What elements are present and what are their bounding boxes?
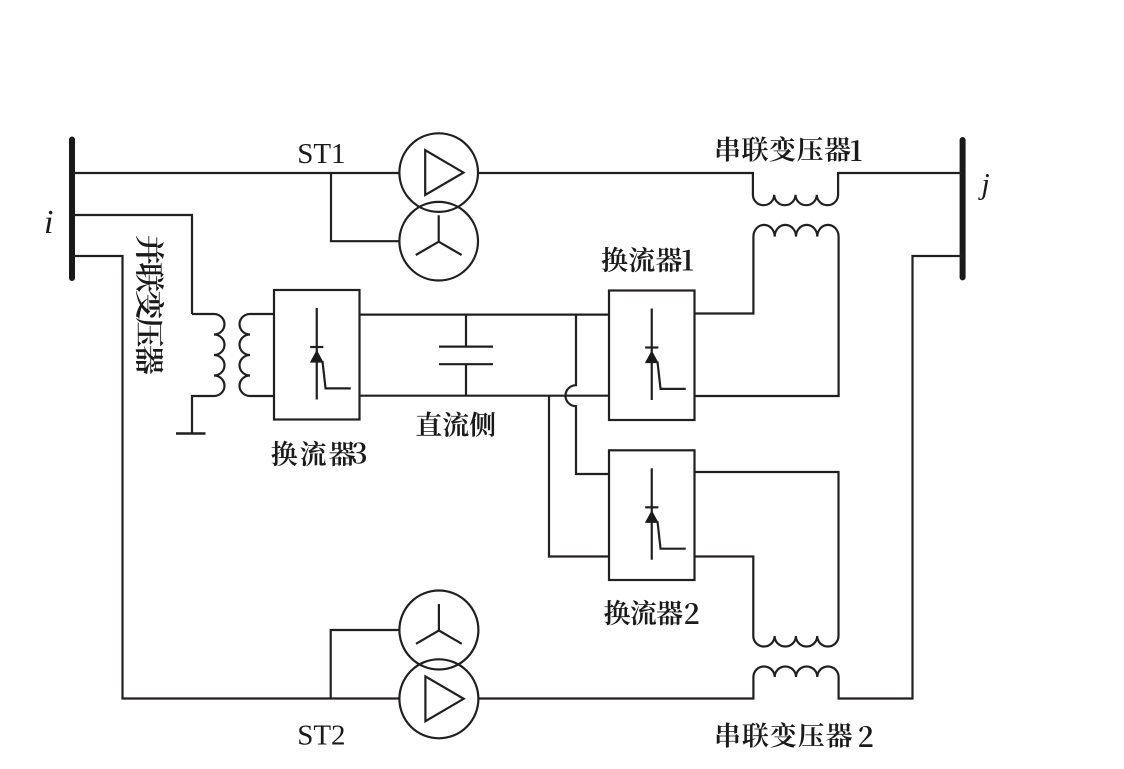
- wire: DC top rail to converter 2 (with hop over bottom rail): [566, 315, 610, 474]
- label: shunt transformer (binglian bianyaqi), rotated 90deg: [136, 236, 164, 374]
- transformer ST2 wye-winding circle: [399, 591, 478, 670]
- converter 1 IGBT valve symbol: [651, 309, 653, 401]
- ST1 delta symbol (right-pointing triangle): [425, 150, 463, 195]
- ST2 delta symbol (right-pointing triangle): [425, 676, 463, 721]
- wire: ST2 wye circle tap down to bottom line: [331, 630, 400, 699]
- converter 2 IGBT valve symbol: [651, 468, 653, 560]
- wire: bus i to ST1 delta circle (top line): [73, 172, 399, 174]
- label: series transformer 1 (chuanlian bianyaqi 1): [717, 136, 851, 161]
- shunt transformer secondary winding (right coil): [240, 314, 275, 396]
- wire: ST2 through series transformer 2 primary, up right side to bus j: [478, 256, 962, 699]
- ST1 wye symbol: [416, 215, 462, 255]
- label: DC side (zhiliuce): [416, 411, 495, 436]
- DC-link capacitor: [439, 315, 493, 396]
- svg-text:i: i: [44, 204, 53, 241]
- transformer ST2 delta-winding circle: [399, 659, 478, 738]
- label: converter 2 (huanliuqi 2): [604, 600, 682, 626]
- wire: bus i to shunt transformer primary: [73, 215, 192, 314]
- ground symbol: [176, 432, 206, 434]
- label: converter 1 (huanliuqi 1): [602, 247, 682, 273]
- wire: DC bottom rail to converter 2 lower terminal: [549, 396, 609, 557]
- label: series transformer 2 (chuanlian bianyaqi 2): [717, 722, 852, 747]
- converter 3 box (huanliuqi 3): [274, 290, 360, 420]
- series transformer 2 secondary winding with leads to converter 2: [695, 472, 839, 647]
- wire: bus i down the left side to ST2: [73, 256, 399, 699]
- label: converter 3 (huanliuqi 3): [271, 441, 355, 467]
- wire: DC bus top rail (converter 3 to converter 1): [360, 314, 610, 316]
- bus j (node j): [960, 140, 966, 277]
- converter 3 IGBT valve symbol: [316, 308, 318, 400]
- wire: DC bus bottom rail (converter 3 to converter 1): [360, 395, 610, 397]
- shunt transformer primary winding (left coil): [192, 314, 225, 434]
- svg-text:ST2: ST2: [297, 720, 345, 752]
- wire: ST1 to series transformer 1 primary, then to bus j: [478, 173, 962, 205]
- transformer ST1 delta-winding circle: [399, 133, 478, 212]
- converter 2 box (huanliuqi 2): [609, 450, 695, 580]
- wire: ST1 tap from top line down to wye circle: [331, 173, 399, 241]
- transformer ST1 wye-winding circle: [399, 202, 478, 281]
- svg-text:ST1: ST1: [297, 138, 345, 170]
- ST2 wye symbol: [416, 604, 462, 644]
- series transformer 1 secondary winding with leads to converter 1: [695, 225, 839, 396]
- converter 1 box (huanliuqi 1): [609, 291, 695, 421]
- bus i (node i): [69, 140, 75, 279]
